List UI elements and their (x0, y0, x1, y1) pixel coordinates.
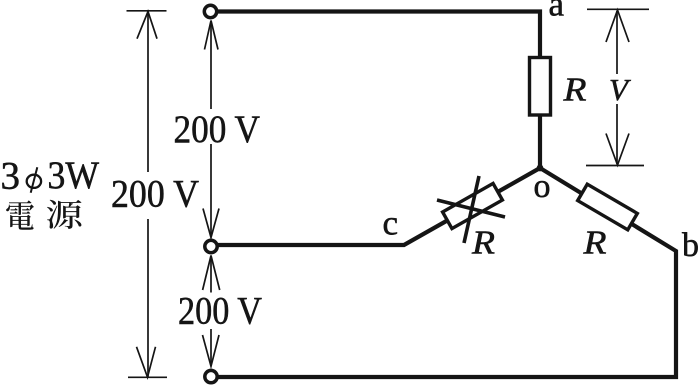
svg-text:c: c (383, 204, 399, 243)
svg-text:3W: 3W (48, 154, 100, 197)
svg-text:R: R (582, 225, 606, 262)
svg-text:o: o (534, 168, 551, 205)
svg-text:3: 3 (1, 155, 21, 198)
svg-text:R: R (562, 72, 586, 109)
svg-text:200 V: 200 V (174, 108, 261, 151)
svg-text:200 V: 200 V (111, 173, 199, 216)
svg-text:b: b (682, 227, 699, 264)
svg-text:R: R (471, 225, 495, 262)
svg-text:V: V (609, 72, 631, 107)
svg-text:a: a (549, 0, 565, 24)
svg-text:200 V: 200 V (178, 290, 262, 333)
